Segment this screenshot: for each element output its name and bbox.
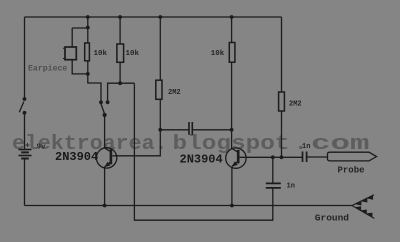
- wire earpiece bottom: [72, 60, 88, 74]
- wire top rail: [25, 16, 282, 18]
- node earpiece jog: [86, 26, 90, 30]
- node rail-R2: [118, 15, 122, 19]
- wire earpiece branch: [72, 17, 88, 47]
- svg-text:Probe: Probe: [338, 166, 365, 176]
- node Q2 base R5: [280, 155, 284, 159]
- wire node C to Q1 base: [112, 130, 160, 156]
- earpiece EP1: [63, 47, 76, 60]
- watermark elektroarea.blogspot.com: [12, 133, 370, 156]
- wire 10k R2 top lead: [119, 17, 121, 44]
- wire Q2 emitter down: [231, 167, 233, 206]
- wire 10k R3 top lead: [231, 17, 233, 43]
- resistor R3 10k: [229, 43, 235, 63]
- capacitor C1: [189, 122, 192, 135]
- wire 2M2 R4 bottom lead: [159, 99, 161, 130]
- junction node dots: [86, 15, 284, 207]
- wire 2M2 R5 bottom lead: [281, 111, 283, 157]
- wire left column top: [24, 17, 26, 99]
- node dot3 Q1 collector: [103, 113, 107, 117]
- battery plus sign: [26, 143, 30, 147]
- transistor Q2 2N3904: [226, 148, 246, 168]
- wire diagonal to Q1 collector: [101, 104, 104, 114]
- wire 10k R2 bottom lead: [119, 62, 121, 83]
- switch S1: [19, 97, 26, 115]
- svg-text:2N3904: 2N3904: [55, 150, 98, 164]
- wire 2M2 R5 top lead: [281, 17, 283, 92]
- wire 10k R1 leads: [87, 28, 89, 74]
- battery B1 9v: [19, 150, 32, 159]
- transistor Q1 2N3904: [96, 148, 116, 168]
- resistor R5 2M2: [279, 92, 285, 111]
- wire Q1 emitter down: [104, 167, 106, 206]
- capacitor C3 1n: [303, 152, 307, 163]
- svg-text:1n: 1n: [287, 182, 295, 190]
- resistor R4 2M2: [156, 80, 162, 99]
- wire C1 left: [160, 129, 189, 131]
- svg-text:Ground: Ground: [315, 213, 350, 224]
- wire left column bottom: [24, 113, 26, 206]
- node C Q1 base: [158, 128, 162, 132]
- svg-text:10k: 10k: [126, 50, 140, 58]
- wire node to Q1 collector jog: [88, 74, 101, 102]
- wire C3 to probe: [307, 156, 328, 158]
- node Q2 emitter rail: [230, 204, 234, 208]
- wire 2M2 R4 top lead: [159, 17, 161, 80]
- svg-text:1n: 1n: [302, 143, 310, 151]
- svg-text:Earpiece: Earpiece: [28, 63, 67, 73]
- svg-text:9v: 9v: [37, 144, 47, 152]
- wire Q2 collector: [231, 62, 233, 148]
- capacitor C2 1n: [266, 183, 281, 188]
- node dot2: [106, 100, 110, 104]
- wire long loop to C2: [134, 83, 272, 220]
- node Q2 base C2: [271, 155, 275, 159]
- wire bottom rail: [25, 205, 353, 207]
- resistor R1 10k: [85, 43, 90, 61]
- wire Q1 collector: [104, 115, 106, 148]
- node B R2 bottom: [118, 81, 122, 85]
- node Q2 collector cap: [230, 128, 234, 132]
- node rail-R4: [158, 15, 162, 19]
- probe tip: [328, 152, 377, 161]
- resistor R2 10k: [117, 44, 124, 62]
- node earpiece-R1: [86, 72, 90, 76]
- wire Q2 base to C3: [240, 156, 303, 158]
- wire C1 right: [192, 129, 231, 131]
- ground clip: [352, 195, 374, 219]
- node Q1 emitter rail: [103, 204, 107, 208]
- svg-text:2N3904: 2N3904: [180, 152, 223, 166]
- wire node B horizontal: [108, 83, 135, 102]
- node rail-R3: [230, 15, 234, 19]
- svg-text:2M2: 2M2: [168, 89, 181, 97]
- svg-text:2M2: 2M2: [289, 100, 302, 108]
- wire C2 top lead: [272, 157, 274, 183]
- svg-text:10k: 10k: [211, 50, 225, 58]
- svg-text:10k: 10k: [94, 50, 108, 58]
- node dot1: [99, 100, 103, 104]
- node rail-earpiece: [86, 15, 90, 19]
